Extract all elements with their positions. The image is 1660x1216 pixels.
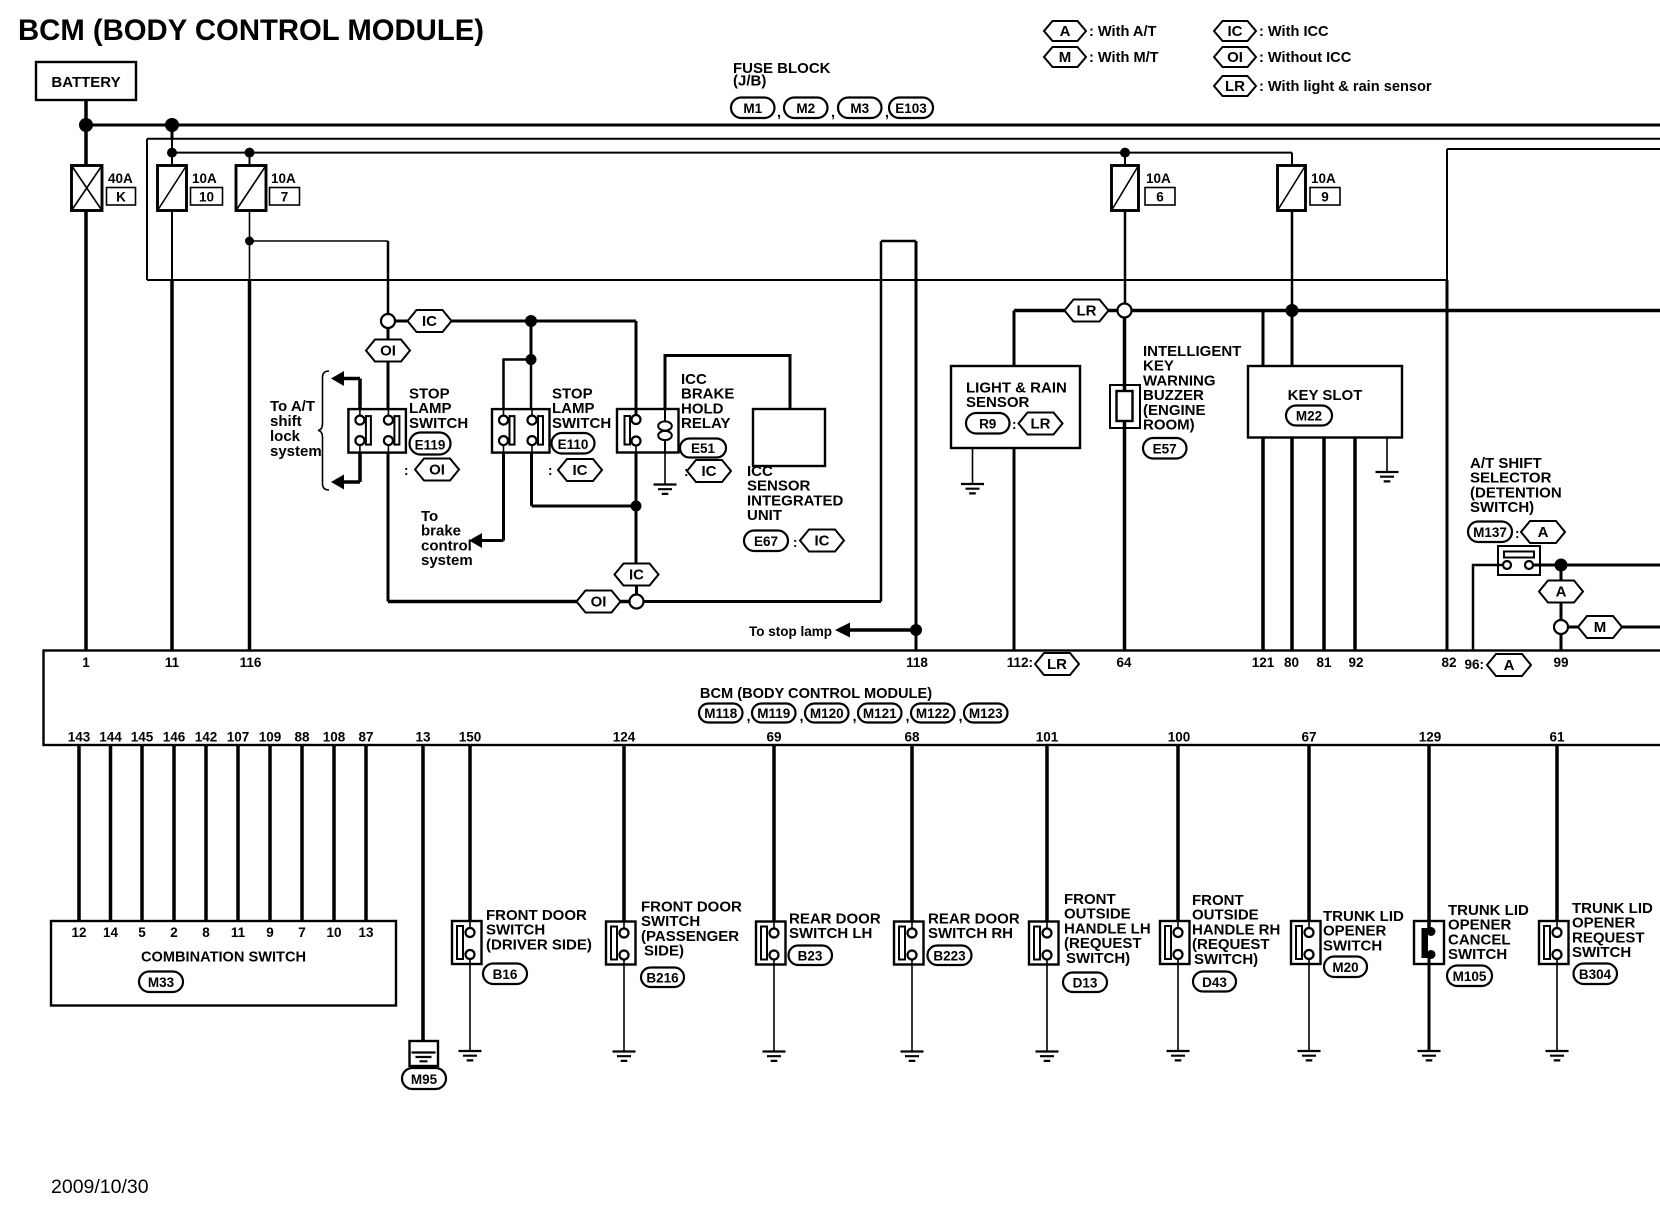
svg-text:82: 82 [1441, 655, 1456, 670]
svg-text:SWITCH: SWITCH [409, 415, 468, 432]
connector oval D43 [1193, 972, 1236, 992]
wire pin129 to trunk lid opener cancel switch [1427, 745, 1431, 929]
ground B304 [1546, 1051, 1569, 1060]
svg-text:system: system [421, 552, 473, 569]
svg-text:SWITCH: SWITCH [1323, 937, 1382, 954]
connector oval M137 [1468, 522, 1512, 543]
connector M1 [731, 98, 781, 122]
wire OI hexagon to switch E119 [387, 362, 390, 410]
svg-text::: : [548, 463, 553, 478]
trunk lid opener request switch B304 [1539, 921, 1569, 964]
svg-text:SWITCH): SWITCH) [1194, 951, 1258, 968]
key slot box M22 [1248, 366, 1402, 438]
svg-text:64: 64 [1116, 655, 1132, 670]
A/T shift selector detention switch M137 [1498, 546, 1540, 575]
svg-text:LR: LR [1077, 303, 1097, 320]
ground D43 [1167, 1051, 1190, 1060]
svg-text:107: 107 [227, 730, 250, 745]
svg-text:10A: 10A [1311, 171, 1336, 186]
svg-text:BCM (BODY CONTROL MODULE): BCM (BODY CONTROL MODULE) [700, 686, 932, 702]
wire M105 ground [1428, 958, 1431, 1051]
svg-text:E119: E119 [415, 438, 446, 453]
svg-text:,: , [959, 709, 963, 725]
svg-text:7: 7 [281, 190, 289, 205]
wire selector right pin to junction [1533, 564, 1561, 567]
wire circle to BCM pin99 [1560, 634, 1563, 650]
wire top link x881 to x916 [881, 240, 916, 243]
rear door switch LH B23 [756, 922, 786, 965]
svg-text:,: , [831, 105, 835, 121]
label STOP LAMP SWITCH E110 [552, 386, 611, 432]
svg-text:LR: LR [1225, 78, 1245, 95]
connector oval M95 [402, 1068, 446, 1089]
pin 112 with LR hexagon [1007, 653, 1079, 675]
connector oval M118 [699, 704, 751, 726]
svg-text:61: 61 [1549, 730, 1565, 745]
label To brake control system [421, 508, 473, 569]
svg-text:E103: E103 [895, 101, 927, 116]
svg-text:SWITCH): SWITCH) [1470, 499, 1534, 516]
svg-text:K: K [116, 190, 126, 205]
svg-text:67: 67 [1301, 730, 1316, 745]
legend hexagon A : With A/T [1044, 21, 1156, 41]
svg-text:68: 68 [904, 730, 920, 745]
svg-text:92: 92 [1348, 655, 1363, 670]
svg-text:M2: M2 [796, 101, 815, 116]
wire right loop vertical x1447 to BCM pin82 [1446, 149, 1448, 650]
svg-text:143: 143 [68, 730, 91, 745]
wire B304 ground [1556, 964, 1558, 1051]
trunk lid opener switch M20 [1291, 921, 1321, 964]
brace A/T shift lock [318, 371, 329, 490]
svg-text:118: 118 [906, 655, 928, 670]
svg-text:IC: IC [1228, 23, 1243, 40]
wire fuse9 feed corner [1291, 153, 1293, 166]
svg-text:B216: B216 [646, 971, 679, 986]
svg-text::: : [793, 535, 798, 550]
wire E110 feed drop x531 [530, 321, 533, 360]
svg-text:BCM (BODY CONTROL MODULE): BCM (BODY CONTROL MODULE) [18, 14, 484, 47]
wire selector left pin to BCM pin96 [1473, 565, 1503, 650]
wire key slot feed right [1291, 311, 1294, 367]
svg-text:M118: M118 [704, 706, 738, 721]
junction y152 x172 [167, 148, 177, 158]
label LIGHT AND RAIN SENSOR [966, 380, 1067, 412]
hexagon IC on x636 [615, 564, 659, 586]
svg-text:142: 142 [195, 730, 218, 745]
svg-text:M20: M20 [1332, 960, 1358, 975]
svg-text:LR: LR [1047, 656, 1067, 673]
svg-text:150: 150 [459, 730, 482, 745]
svg-text:87: 87 [358, 730, 373, 745]
junction IC line x531 [525, 315, 537, 327]
ground M105 [1418, 1051, 1441, 1060]
label REAR DOOR SWITCH RH [928, 911, 1020, 943]
wire riser x881 up [880, 241, 883, 602]
svg-text:SENSOR: SENSOR [966, 394, 1030, 411]
stop lamp switch E110 [492, 409, 550, 453]
svg-text:IC: IC [702, 463, 717, 480]
svg-text:M122: M122 [916, 706, 950, 721]
svg-text:,: , [853, 709, 857, 725]
BCM body control module box [44, 651, 1660, 746]
svg-text:BATTERY: BATTERY [51, 74, 120, 91]
label A/T SHIFT SELECTOR [1470, 455, 1562, 516]
svg-text:10A: 10A [1146, 171, 1171, 186]
svg-text:E57: E57 [1153, 442, 1177, 457]
wire D13 ground [1046, 965, 1048, 1052]
legend hexagon LR : With light and rain sensor [1214, 76, 1432, 96]
svg-text:M119: M119 [757, 706, 790, 721]
svg-text:9: 9 [1321, 190, 1329, 205]
svg-text:10: 10 [199, 190, 214, 205]
connector oval M22 [1286, 406, 1332, 426]
svg-text:5: 5 [138, 925, 146, 940]
connector oval E119 [410, 433, 451, 455]
wire E110 left pin to brake control [469, 453, 504, 548]
wire IC hexagon to circle [635, 586, 638, 596]
svg-text:M105: M105 [1453, 969, 1487, 984]
connector oval B16 [483, 964, 527, 985]
junction x636 y506 [631, 501, 642, 512]
svg-text:A: A [1538, 524, 1549, 541]
wire B16 ground [469, 964, 471, 1051]
svg-text:SWITCH LH: SWITCH LH [789, 925, 872, 942]
wire loop line y280 [147, 279, 1447, 281]
svg-text:UNIT: UNIT [747, 507, 782, 524]
ground key slot [1376, 472, 1399, 481]
arrow to A/T shift lock system top [331, 371, 360, 409]
label STOP LAMP SWITCH E119 [409, 386, 468, 432]
wire x916 down to BCM pin118 [915, 241, 918, 650]
svg-text:KEY SLOT: KEY SLOT [1288, 387, 1363, 404]
svg-text:SWITCH): SWITCH) [1066, 950, 1130, 967]
wire OI branch below circle [387, 328, 390, 340]
svg-text:E67: E67 [754, 534, 778, 549]
label INTELLIGENT KEY WARNING BUZZER [1143, 343, 1241, 434]
fusible link K 40A [72, 166, 136, 211]
label To A/T shift lock system [270, 398, 322, 460]
label TRUNK LID OPENER CANCEL SWITCH [1448, 902, 1529, 963]
wire pin150 to front door switch driver [468, 745, 472, 921]
svg-text:7: 7 [298, 925, 306, 940]
svg-text:2009/10/30: 2009/10/30 [51, 1176, 149, 1198]
front outside handle LH request switch D13 [1029, 922, 1059, 965]
svg-text:SWITCH: SWITCH [1572, 944, 1631, 961]
option circle M tap [1554, 620, 1568, 634]
svg-text:B16: B16 [493, 967, 518, 982]
wire pin69 to rear door switch LH [772, 745, 776, 922]
junction y152 x249 [245, 148, 255, 158]
svg-text:6: 6 [1156, 190, 1164, 205]
wire B23 ground [773, 965, 775, 1052]
wires BCM to combination switch [79, 745, 366, 921]
option merge circle y602 [630, 595, 644, 609]
wire sensor ground [972, 448, 974, 484]
wire key slot ground stub [1386, 438, 1388, 472]
connector oval M105 [1447, 966, 1492, 987]
wire key slot out pin121 [1261, 438, 1265, 651]
junction selector output [1555, 559, 1568, 572]
wire junction down to IC hexagon [635, 506, 638, 564]
connector oval M123 [964, 704, 1008, 723]
wire E119 right pin down to y602 [387, 453, 390, 602]
wire circle to buzzer [1123, 318, 1127, 392]
hexagon IC on y321 [408, 310, 452, 332]
svg-text:108: 108 [323, 730, 346, 745]
fuse 10 10A [158, 166, 223, 211]
svg-text:80: 80 [1284, 655, 1299, 670]
svg-text::: : [1012, 417, 1017, 432]
svg-text:: With M/T: : With M/T [1089, 50, 1159, 66]
svg-text:: With light & rain sensor: : With light & rain sensor [1259, 79, 1432, 95]
svg-text:M22: M22 [1296, 409, 1322, 424]
svg-text:10A: 10A [192, 171, 217, 186]
svg-text:M: M [1594, 619, 1607, 636]
svg-text:M120: M120 [810, 706, 844, 721]
junction LR line fuse9 [1286, 304, 1299, 317]
wire B223 ground [911, 965, 913, 1052]
junction to stop lamp [910, 624, 922, 636]
svg-text:A: A [1060, 23, 1071, 40]
wire relay coil ground [664, 453, 666, 485]
wire LR power line y310 [1014, 309, 1660, 313]
ground B16 [459, 1051, 482, 1060]
wire pin61 to trunk lid opener request switch [1555, 745, 1559, 921]
svg-text:11: 11 [165, 655, 180, 670]
hexagon IC after E67 [793, 530, 844, 552]
label FRONT OUTSIDE HANDLE LH REQUEST SWITCH [1064, 891, 1151, 967]
wire pin101 to front outside handle LH [1045, 745, 1049, 922]
svg-text:8: 8 [202, 925, 210, 940]
stop lamp switch E119 [348, 409, 406, 453]
wire loop line y138.8 [147, 138, 1660, 140]
svg-text:40A: 40A [108, 171, 133, 186]
wire branch y241 to x388 [250, 241, 389, 314]
connector oval M119 [752, 704, 804, 726]
wire fuse10 to BCM pin11 [171, 211, 173, 651]
svg-text:D13: D13 [1073, 976, 1098, 991]
svg-text:OI: OI [429, 462, 445, 479]
connector oval M20 [1324, 957, 1367, 978]
svg-text:(J/B): (J/B) [733, 73, 766, 90]
label REAR DOOR SWITCH LH [789, 911, 881, 943]
wire battery feed vertical x86 [84, 100, 88, 166]
ground B216 [613, 1052, 636, 1061]
connector oval R9 [966, 413, 1010, 434]
wire B216 ground [623, 965, 625, 1052]
wire IC line corner down to relay [635, 321, 638, 415]
wire fuse row feed y152.6 [172, 152, 1292, 154]
wire pin67 to trunk lid opener switch [1307, 745, 1311, 921]
svg-text:112:: 112: [1007, 655, 1033, 670]
label ICC SENSOR INTEGRATED UNIT [747, 463, 844, 524]
wire M branch right [1568, 626, 1660, 629]
svg-text:88: 88 [294, 730, 310, 745]
wire buzzer to BCM pin64 [1123, 421, 1127, 650]
ground B223 [901, 1052, 924, 1061]
wire D43 ground [1177, 964, 1179, 1051]
svg-text:13: 13 [358, 925, 374, 940]
svg-text:E110: E110 [558, 437, 589, 452]
hexagon IC under E110 [548, 459, 602, 481]
connector oval E110 [552, 433, 595, 454]
wire key slot out pin92 [1353, 438, 1357, 651]
ground D13 [1036, 1052, 1059, 1061]
hexagon IC under E51 [684, 460, 731, 482]
svg-text:99: 99 [1553, 655, 1568, 670]
hexagon LR on y310 [1065, 300, 1109, 322]
hexagon M on M branch [1578, 616, 1622, 638]
svg-text:11: 11 [231, 925, 246, 940]
wire y602 OI path [388, 600, 629, 604]
svg-text:IC: IC [815, 533, 830, 550]
svg-text:SIDE): SIDE) [644, 943, 684, 960]
wire key slot out pin80 [1290, 438, 1294, 651]
fuse 6 10A [1112, 166, 1176, 211]
ground relay coil [654, 485, 677, 494]
svg-text:To stop lamp: To stop lamp [749, 624, 832, 639]
arrow to stop lamp [835, 623, 916, 638]
rear door switch RH B223 [894, 922, 924, 965]
fuse 9 10A [1278, 166, 1341, 211]
wire selector output right [1561, 564, 1660, 567]
option split circle IC/OI x388 [381, 314, 395, 328]
wire fuse6 feed stub [1124, 153, 1126, 166]
wire y602 to right riser [644, 600, 882, 603]
connector oval B304 [1574, 964, 1618, 985]
svg-text:SWITCH: SWITCH [1448, 946, 1507, 963]
wire sensor top to LR line [1013, 311, 1016, 367]
svg-text:1: 1 [82, 655, 90, 670]
junction y152 x1125 [1120, 148, 1130, 158]
svg-text:SWITCH: SWITCH [552, 415, 611, 432]
wire IC branch y321 [395, 320, 636, 323]
svg-text:,: , [777, 105, 781, 121]
wire relay contact to junction y506 [635, 453, 638, 507]
svg-text:RELAY: RELAY [681, 415, 730, 432]
svg-text:81: 81 [1316, 655, 1332, 670]
svg-text:13: 13 [415, 730, 431, 745]
svg-text:D43: D43 [1202, 975, 1227, 990]
hexagon OI below circle [366, 340, 410, 362]
svg-text:M3: M3 [850, 101, 869, 116]
ICC sensor integrated unit box E67 [753, 409, 825, 466]
wire sensor bottom to BCM pin112 [1013, 448, 1016, 650]
svg-text:96:: 96: [1464, 657, 1484, 672]
wire main bus y125 [86, 124, 1660, 127]
legend hexagon M : With M/T [1044, 47, 1159, 67]
legend hexagon OI : Without ICC [1214, 47, 1352, 67]
junction battery bus [79, 118, 93, 132]
svg-text:IC: IC [573, 462, 588, 479]
connector oval M120 [805, 704, 857, 726]
svg-text:121: 121 [1252, 655, 1275, 670]
arrow to A/T shift lock system bottom [331, 453, 360, 490]
svg-text:LR: LR [1031, 416, 1051, 433]
svg-text:: With ICC: : With ICC [1259, 24, 1329, 40]
ICC brake hold relay E51 [617, 409, 679, 453]
connector E103 [889, 98, 933, 119]
svg-text:B304: B304 [1579, 967, 1612, 982]
svg-text:10A: 10A [271, 171, 296, 186]
svg-text:146: 146 [163, 730, 186, 745]
svg-text:COMBINATION SWITCH: COMBINATION SWITCH [141, 950, 306, 966]
wire right loop top y149 [1447, 148, 1660, 150]
ground sensor [961, 484, 984, 493]
svg-text:R9: R9 [979, 417, 996, 432]
svg-text:(DRIVER SIDE): (DRIVER SIDE) [486, 936, 592, 953]
wire fuse10 drop from bus [171, 125, 174, 166]
hexagon LR after R9 [1012, 413, 1063, 435]
svg-text:IC: IC [629, 567, 644, 584]
svg-text:129: 129 [1419, 730, 1442, 745]
intelligent key warning buzzer E57 [1110, 385, 1140, 428]
junction E110 top split [526, 354, 537, 365]
svg-text:M: M [1059, 49, 1072, 66]
svg-text:E51: E51 [691, 441, 716, 456]
wire fuse6 lower to circle [1124, 211, 1127, 305]
svg-text:12: 12 [71, 925, 86, 940]
wire fuse7 lower [249, 211, 251, 651]
ground box M95 [410, 1041, 439, 1066]
battery [36, 62, 136, 100]
connector oval B223 [928, 946, 972, 966]
connector oval E51 [680, 439, 726, 458]
svg-text:ROOM): ROOM) [1143, 417, 1195, 434]
light and rain sensor box R9 [951, 366, 1080, 448]
trunk lid opener cancel switch M105 [1414, 921, 1444, 964]
wire E110 top split horizontal [504, 360, 532, 410]
ground B23 [763, 1052, 786, 1061]
wire key slot out pin81 [1322, 438, 1326, 651]
connector oval E67 [744, 531, 788, 552]
svg-text:,: , [800, 709, 804, 725]
wire relay coil top loop [665, 356, 790, 410]
connector oval D13 [1063, 973, 1107, 993]
svg-text:109: 109 [259, 730, 282, 745]
wire E110 right pin down to y506 [532, 453, 637, 506]
svg-text:14: 14 [103, 925, 119, 940]
wire fuse9 lower [1291, 211, 1294, 311]
hexagon OI on y602 [577, 591, 621, 613]
wire key slot feed left [1262, 311, 1265, 367]
connector oval M121 [858, 704, 910, 726]
connector oval B216 [641, 968, 684, 988]
label ICC BRAKE HOLD RELAY [681, 371, 734, 432]
svg-text:M95: M95 [411, 1072, 438, 1087]
front door switch driver side B16 [452, 921, 482, 964]
option circle fuse6 tap [1118, 304, 1132, 318]
svg-text:M33: M33 [148, 975, 175, 990]
wire battery to BCM pin1 [84, 211, 88, 651]
connector oval M122 [911, 704, 963, 726]
svg-text:SWITCH RH: SWITCH RH [928, 925, 1013, 942]
svg-text:IC: IC [422, 313, 437, 330]
fuse 7 10A [236, 166, 300, 211]
svg-text::: : [1515, 526, 1520, 541]
svg-text:A: A [1556, 584, 1567, 601]
label TRUNK LID OPENER SWITCH [1323, 908, 1404, 954]
label FRONT DOOR SWITCH PASSENGER SIDE [641, 899, 742, 960]
svg-text:M137: M137 [1473, 525, 1507, 540]
svg-text:69: 69 [766, 730, 781, 745]
hexagon A after M137 [1515, 521, 1565, 543]
hexagon A on x1561 [1539, 581, 1583, 603]
combination switch box M33 [51, 921, 396, 1006]
svg-text:100: 100 [1168, 730, 1191, 745]
svg-text:101: 101 [1036, 730, 1059, 745]
